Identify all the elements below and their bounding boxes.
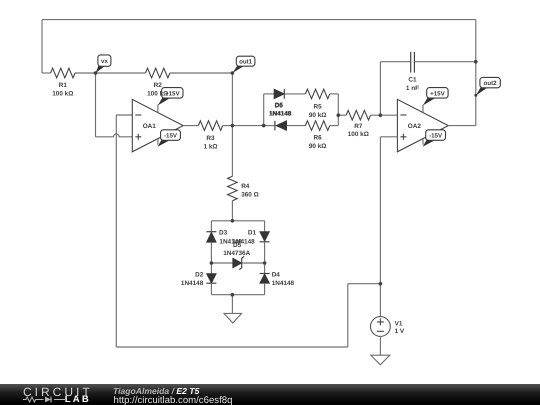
wire node vx to R2 <box>96 72 146 74</box>
label D3 <box>219 230 242 246</box>
wire OA2 plus down to V1 node <box>379 137 381 284</box>
svg-text:1 V: 1 V <box>395 328 405 335</box>
wire V1 bottom to ground <box>379 336 381 355</box>
voltage source V1 <box>371 317 391 337</box>
svg-text:90 kΩ: 90 kΩ <box>309 143 327 150</box>
svg-text:1N4148: 1N4148 <box>272 280 295 287</box>
wire D6 to R5 <box>285 93 306 95</box>
bridge right vertical upper <box>264 221 266 232</box>
wire branch right vertical <box>337 94 339 126</box>
svg-text:R7: R7 <box>354 123 363 130</box>
wire R5 to right branch vertical <box>330 93 339 95</box>
wire R3 to out1 node <box>223 125 233 127</box>
svg-text:360 Ω: 360 Ω <box>241 191 259 198</box>
svg-text:OA1: OA1 <box>143 123 157 130</box>
resistor R4 <box>228 176 238 200</box>
wire C1 right lead <box>415 61 476 63</box>
label R5 <box>309 103 327 118</box>
svg-text:1N4736A: 1N4736A <box>223 250 250 257</box>
node tag vx <box>96 55 111 73</box>
logo schematic doodle <box>23 395 65 404</box>
wire right vertical out2 <box>475 20 477 126</box>
svg-text:D5: D5 <box>275 102 284 109</box>
bridge middle wire left <box>211 262 232 264</box>
wire OA2 output <box>448 125 476 127</box>
label R2 <box>147 82 168 97</box>
svg-text:R5: R5 <box>314 103 323 110</box>
power tag +15V OA2 <box>423 88 448 106</box>
resistor R2 <box>146 68 170 78</box>
wire R1 to node vx <box>75 72 96 74</box>
wire vx down <box>95 73 97 137</box>
svg-text:D3: D3 <box>219 230 228 237</box>
wire bottom right riser <box>347 284 349 347</box>
wire C1 left lead <box>380 61 410 63</box>
bridge right vertical middle <box>264 242 266 274</box>
ground below bridge <box>224 313 242 323</box>
svg-text:R2: R2 <box>154 82 163 89</box>
diode D4 <box>260 274 270 284</box>
resistor R5 <box>305 89 329 99</box>
svg-text:-15V: -15V <box>429 133 443 140</box>
svg-text:1 kΩ: 1 kΩ <box>203 144 217 151</box>
svg-text:R1: R1 <box>59 82 68 89</box>
junction bridge middle right <box>263 261 267 265</box>
capacitor C1 <box>411 52 415 73</box>
wire OA2 plus stub <box>380 136 397 138</box>
wire R1 left lead <box>42 72 51 74</box>
junction bridge top <box>231 219 235 223</box>
circuitlab logo LAB <box>65 394 91 405</box>
junction diode branch left <box>262 124 266 128</box>
svg-text:90 kΩ: 90 kΩ <box>309 112 327 119</box>
wire to V1 node <box>348 283 381 285</box>
diode D1 <box>260 232 270 242</box>
bridge left vertical lower <box>210 283 212 295</box>
svg-text:100 kΩ: 100 kΩ <box>147 90 168 97</box>
wire branch left vertical <box>263 94 265 126</box>
ground below V1 <box>371 355 390 365</box>
resistor R1 <box>51 68 75 78</box>
junction C1 right <box>474 60 478 64</box>
wire top branch to D6 <box>264 93 274 95</box>
svg-text:D5: D5 <box>233 242 242 249</box>
label R4 <box>241 183 259 198</box>
power tag -15V OA2 <box>423 130 446 147</box>
label C1 <box>406 77 419 92</box>
wire R7 to OA2 minus <box>371 114 398 116</box>
node tag out2 <box>476 77 500 95</box>
resistor R7 <box>346 110 370 120</box>
diode bridge top wire <box>211 220 264 222</box>
wire OA1 minus stub <box>116 114 132 116</box>
label R3 <box>203 135 217 150</box>
junction out2 attach <box>474 94 477 97</box>
junction V1 top node <box>379 282 383 286</box>
wire OA1 output <box>183 125 198 127</box>
svg-text:R6: R6 <box>314 134 323 141</box>
svg-text:D1: D1 <box>248 230 257 237</box>
junction diode branch right <box>337 113 341 117</box>
wire to OA1 plus with hop <box>96 134 133 137</box>
power tag -15V OA1 <box>158 130 181 147</box>
footer title text <box>113 386 199 396</box>
svg-text:V1: V1 <box>395 321 403 328</box>
label D5 zener <box>223 242 250 257</box>
bridge bottom wire <box>211 294 264 296</box>
label R7 <box>348 123 369 138</box>
wire top feedback out2 to R1 <box>42 19 476 21</box>
wire bottom horizontal <box>116 346 347 348</box>
wire R6 to right branch vertical <box>330 125 339 127</box>
svg-text:C1: C1 <box>408 77 417 84</box>
power tag +15V OA1 <box>158 88 183 106</box>
svg-text:1N4148: 1N4148 <box>269 111 292 118</box>
wire branch node to D5 <box>264 125 275 127</box>
resistor R3 <box>198 121 222 131</box>
junction bridge bottom <box>231 293 235 297</box>
diode D2 <box>206 274 216 284</box>
junction bridge middle left <box>210 261 214 265</box>
wire left vertical to R1 <box>41 20 43 73</box>
op-amp U2 OA2 <box>397 99 448 151</box>
bridge left vertical upper <box>210 221 212 232</box>
junction R3 right <box>231 124 235 128</box>
diode D6 <box>274 89 284 99</box>
svg-text:vx: vx <box>101 58 108 65</box>
svg-text:R3: R3 <box>206 135 215 142</box>
wire branch to R7 <box>338 114 346 116</box>
svg-text:100 kΩ: 100 kΩ <box>348 131 369 138</box>
zener diode D5 1N4736A <box>233 256 244 269</box>
svg-text:100 kΩ: 100 kΩ <box>52 90 73 97</box>
diode D5 <box>275 121 287 131</box>
wire D5 to R6 <box>287 125 306 127</box>
label D4 <box>272 272 295 287</box>
bridge right vertical lower <box>264 283 266 295</box>
circuitlab logo CIRCUIT <box>23 385 93 399</box>
svg-text:out2: out2 <box>484 80 498 87</box>
svg-text:D2: D2 <box>195 272 204 279</box>
junction node vx <box>94 71 98 75</box>
node tag out1 <box>233 56 255 73</box>
svg-text:1N4148: 1N4148 <box>181 280 204 287</box>
label D6 overlapped <box>269 102 292 118</box>
svg-text:OA2: OA2 <box>408 123 422 130</box>
label R6 <box>309 134 327 149</box>
wire R4 to bridge top <box>231 201 233 221</box>
svg-text:out1: out1 <box>239 59 253 66</box>
wire R3 node to diode branch node <box>232 125 263 127</box>
label R1 <box>52 82 73 97</box>
wire C1 riser <box>379 62 381 115</box>
bridge middle wire right <box>242 262 265 264</box>
wire OA1 minus down long <box>115 115 117 347</box>
junction C1 riser <box>379 113 383 117</box>
svg-text:-15V: -15V <box>164 133 178 140</box>
label D2 <box>181 272 204 287</box>
svg-text:1 nF: 1 nF <box>406 85 419 92</box>
wire out1 down to R3 node <box>231 73 233 126</box>
svg-text:+15V: +15V <box>430 90 445 97</box>
op-amp U1 OA1 <box>132 99 183 151</box>
label V1 <box>395 321 405 335</box>
wire out1 node down to R4 <box>231 126 233 177</box>
bridge left vertical middle <box>210 242 212 273</box>
junction node out1 <box>231 71 235 75</box>
resistor R6 <box>305 121 329 131</box>
wire V1 node to V1 top <box>379 284 381 317</box>
footer bar <box>0 384 540 405</box>
svg-text:D4: D4 <box>272 272 281 279</box>
bridge ground stem <box>231 295 233 314</box>
svg-text:R4: R4 <box>241 183 250 190</box>
wire R2 to node out1 <box>170 72 233 74</box>
diode D3 <box>206 232 216 243</box>
label D1 <box>232 230 256 246</box>
